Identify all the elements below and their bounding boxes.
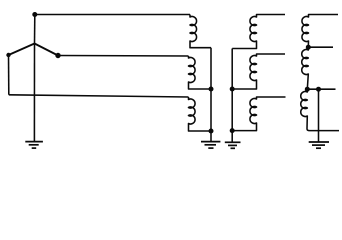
wire wye right diagonal xyxy=(35,44,59,56)
wire middle phase B to T1b xyxy=(58,55,189,58)
ground G3 xyxy=(309,142,329,148)
node bank2 bus/T2c junction xyxy=(230,128,235,133)
winding T3 bottom section xyxy=(301,89,339,130)
wire neutral vertical from node A to wye apex xyxy=(34,15,36,44)
node T3 tap 2 xyxy=(305,87,310,92)
winding T3 (bank3 tapped winding, top section) xyxy=(302,15,338,48)
winding T1b (bank1 middle coil) xyxy=(189,56,212,89)
wire bank2 neutral bus xyxy=(231,49,233,143)
node bank1 bus/T1b junction xyxy=(209,87,214,92)
winding T2b (bank2 middle coil) xyxy=(232,54,285,89)
node T3 tap 1 xyxy=(306,45,311,50)
wire left phase down xyxy=(8,55,10,95)
winding T2a (bank2 top coil) xyxy=(232,15,285,49)
node tap2/ground-stem junction xyxy=(316,87,321,92)
wire bank1 neutral bus xyxy=(210,48,212,142)
winding T1c (bank1 bottom coil) xyxy=(189,97,212,131)
node A (top phase junction dot) xyxy=(32,12,37,17)
wire T3 tap1 line xyxy=(308,46,333,48)
wire top phase A to T1a xyxy=(35,14,190,16)
node B (middle phase dot) xyxy=(55,53,60,58)
wire neutral to ground xyxy=(33,44,35,142)
winding T3 middle section xyxy=(302,47,309,89)
wire bank3 ground stem xyxy=(318,89,320,141)
winding T2c (bank2 bottom coil) xyxy=(232,97,285,131)
ground G1 xyxy=(201,142,220,149)
node C (left phase dot) xyxy=(6,53,10,57)
ground G0 xyxy=(25,142,43,149)
node bank2 bus/T2b junction xyxy=(230,87,235,92)
winding T1a (bank1 top coil) xyxy=(190,15,211,48)
wire wye left diagonal xyxy=(9,44,35,56)
wire T3 tap2 line xyxy=(307,88,335,90)
wire bottom phase to T1c xyxy=(9,95,189,97)
node bank1 bus/T1c junction xyxy=(209,129,214,134)
ground G2 xyxy=(225,142,241,148)
